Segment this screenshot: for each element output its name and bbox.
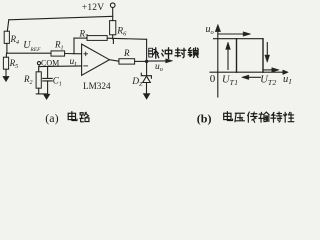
resistor R2 xyxy=(36,72,41,88)
hanzi: hand-drawn glyphs xyxy=(68,48,294,123)
capacitor C1 xyxy=(47,66,49,78)
resistor R7 xyxy=(87,36,107,41)
wire corner down to output node xyxy=(146,39,148,61)
特 xyxy=(271,113,276,123)
svg-text:uo: uo xyxy=(155,62,163,73)
wire R4 to node xyxy=(6,43,8,53)
x axis xyxy=(210,71,284,73)
svg-text:(b): (b) xyxy=(197,112,212,126)
电路 (a) caption xyxy=(68,112,89,122)
svg-text:R1: R1 xyxy=(54,40,64,52)
冲 xyxy=(162,50,164,56)
svg-text:UT1: UT1 xyxy=(222,74,239,87)
minus sign xyxy=(84,65,88,67)
svg-text:R: R xyxy=(123,48,130,58)
svg-text:(a): (a) xyxy=(45,111,58,125)
wire feedback to R7 xyxy=(74,37,87,39)
svg-text:0: 0 xyxy=(210,73,216,85)
svg-text:uI: uI xyxy=(70,57,78,68)
graph (b) axes and loop xyxy=(210,25,288,98)
压 xyxy=(235,113,245,122)
resistor R1 xyxy=(51,51,65,56)
电 xyxy=(68,112,77,121)
wire bottom bar xyxy=(36,93,47,95)
电 xyxy=(224,112,233,121)
down arrow at UT2 xyxy=(266,43,268,56)
loop left edge xyxy=(236,39,238,72)
stub below R6 junction xyxy=(112,40,114,44)
输 xyxy=(259,112,263,122)
性 xyxy=(284,112,287,122)
node output junction xyxy=(145,60,148,63)
zener diode DZ xyxy=(141,73,151,78)
text labels circuit xyxy=(9,3,163,91)
wire node to R1 xyxy=(7,52,51,54)
wire feedback vertical xyxy=(73,38,75,54)
封 xyxy=(175,48,181,57)
right arrow on axis after UT2 xyxy=(263,69,272,71)
output arrow uo xyxy=(147,60,166,62)
wire op-amp output xyxy=(109,60,119,62)
resistor R4 xyxy=(4,31,9,43)
left arrow below axis xyxy=(248,76,260,78)
wire R2 bottom xyxy=(38,88,40,94)
power terminal +12V xyxy=(110,3,115,8)
ground (arrow) under R5 xyxy=(3,76,9,81)
路 xyxy=(80,113,84,122)
svg-text:uI: uI xyxy=(283,74,292,86)
resistor R6 xyxy=(110,21,116,35)
svg-text:C1: C1 xyxy=(53,75,62,87)
wire COM to - input xyxy=(39,65,82,68)
wire left branch stem xyxy=(7,20,9,31)
wire R6 to rail xyxy=(112,35,114,39)
wire R to node xyxy=(135,60,147,62)
wire R5 to ground xyxy=(5,69,7,76)
svg-text:UT2: UT2 xyxy=(260,74,277,87)
ground under R2 C1 xyxy=(43,94,49,99)
svg-text:+12V: +12V xyxy=(82,3,105,13)
wire node to zener xyxy=(146,61,148,75)
svg-text:uo: uo xyxy=(206,24,215,36)
wire to R2 xyxy=(38,67,40,72)
svg-text:R5: R5 xyxy=(9,58,19,70)
svg-text:DZ: DZ xyxy=(131,77,143,88)
svg-text:UREF: UREF xyxy=(23,40,41,53)
op-amp U1 LM324 xyxy=(82,44,110,75)
wire terminal to R6 xyxy=(112,8,114,21)
ground under DZ xyxy=(143,94,150,100)
wire R1 to op-amp + input xyxy=(65,53,82,55)
脉冲封锁 label xyxy=(149,48,199,59)
plus sign xyxy=(84,52,88,56)
loop top line xyxy=(214,38,264,40)
wire top-left rail xyxy=(9,16,113,20)
text labels graph xyxy=(206,24,292,87)
wire R7 to corner xyxy=(107,38,146,39)
svg-text:R2: R2 xyxy=(23,74,33,86)
电压传输特性 (b) caption xyxy=(224,112,294,123)
锁 xyxy=(188,48,192,57)
resistor R xyxy=(119,59,135,64)
y axis xyxy=(217,30,219,97)
脉 xyxy=(149,48,159,59)
svg-text:R6: R6 xyxy=(116,27,127,38)
svg-text:COM: COM xyxy=(41,59,59,68)
up arrow at UT1 xyxy=(227,49,229,70)
right arrow above top line xyxy=(218,33,244,35)
terminal COM xyxy=(37,62,40,65)
wire node to R5 xyxy=(5,53,7,57)
loop right edge xyxy=(262,39,264,72)
传 xyxy=(248,112,250,122)
resistor R5 xyxy=(3,57,8,69)
svg-text:LM324: LM324 xyxy=(83,81,111,91)
svg-text:R4: R4 xyxy=(10,34,20,46)
